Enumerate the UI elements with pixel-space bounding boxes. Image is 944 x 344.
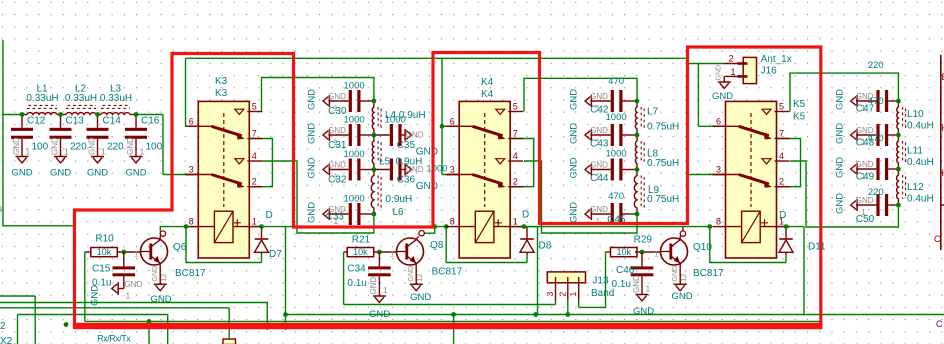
wire R10 to Q6 base [117, 251, 140, 253]
svg-text:GND: GND [125, 168, 146, 179]
svg-text:1000: 1000 [426, 164, 447, 175]
svg-text:1000: 1000 [606, 149, 627, 160]
wire rail [0, 295, 35, 297]
junction [784, 224, 789, 229]
svg-text:1: 1 [513, 217, 518, 227]
svg-text:3: 3 [716, 165, 721, 175]
wire input bus [2, 114, 22, 116]
wire riser [285, 227, 287, 330]
wire C16 to K3 pin3 [136, 114, 163, 116]
svg-text:C36: C36 [397, 175, 416, 186]
wire K5 pin5 to C47 node [790, 73, 898, 111]
svg-text:1: 1 [654, 250, 658, 259]
wire coil rail [186, 226, 198, 228]
junction [707, 224, 712, 229]
wire R21 to Q8 base [374, 251, 397, 253]
wire [687, 58, 689, 63]
junction [372, 167, 377, 172]
svg-text:GND: GND [590, 205, 608, 214]
svg-text:GND: GND [152, 266, 159, 282]
svg-text:GND: GND [410, 292, 431, 303]
junction [533, 312, 538, 317]
junction [444, 224, 449, 229]
svg-text:1000: 1000 [344, 149, 365, 160]
relay K3 [185, 76, 262, 258]
svg-text:C49: C49 [856, 172, 875, 183]
junction [184, 224, 189, 229]
svg-text:0.1u: 0.1u [612, 279, 631, 290]
pin [96, 114, 101, 116]
junction [20, 112, 25, 117]
wire [785, 254, 787, 263]
svg-text:Q6: Q6 [173, 242, 187, 253]
capacitor C44 [569, 149, 637, 185]
wire riser to rail [803, 227, 805, 315]
svg-text:C14: C14 [103, 116, 122, 127]
wire R29 to J13 pin1 [579, 252, 606, 307]
resistor R10 [91, 233, 118, 257]
svg-text:2: 2 [513, 177, 518, 187]
svg-text:GND: GND [406, 131, 424, 140]
svg-text:1: 1 [64, 147, 69, 157]
ground below C16 [125, 137, 146, 179]
svg-text:7: 7 [252, 129, 257, 139]
svg-text:10k: 10k [616, 247, 631, 257]
svg-text:BC817: BC817 [432, 267, 463, 278]
transistor Q10 [661, 238, 725, 291]
junction [896, 99, 901, 104]
wire K3 pin4 to C33 node [262, 161, 374, 233]
svg-text:C34: C34 [347, 264, 366, 275]
svg-text:3: 3 [189, 165, 194, 175]
svg-text:GND: GND [87, 168, 108, 179]
wire rail J13-3 to R21 [344, 304, 556, 306]
svg-text:GND: GND [834, 89, 845, 110]
svg-text:L4 0.9uH: L4 0.9uH [385, 110, 426, 121]
svg-text:0.75uH: 0.75uH [647, 122, 679, 133]
ground below C46 [632, 275, 654, 317]
diode D8 [520, 210, 552, 255]
wire riser [453, 315, 455, 344]
capacitor C43 [569, 112, 637, 150]
wire K4 pin7-pin2 link [511, 139, 534, 187]
connector pin bottom [223, 339, 236, 344]
svg-text:GND: GND [126, 137, 135, 155]
svg-text:GND: GND [569, 157, 580, 178]
ground below C12 [11, 137, 32, 179]
wire K4 pin6 tap [442, 125, 459, 127]
svg-text:8: 8 [716, 217, 721, 227]
connector at right edge [934, 55, 944, 329]
wire rail [0, 307, 229, 309]
svg-text:GND: GND [569, 89, 580, 110]
wire rail [18, 314, 168, 316]
capacitor C47 [834, 60, 898, 115]
svg-text:J13: J13 [592, 276, 609, 287]
svg-text:7: 7 [513, 129, 518, 139]
svg-text:GND: GND [307, 123, 318, 144]
svg-text:L12: L12 [907, 182, 924, 193]
transistor Q8 [397, 238, 463, 291]
svg-text:GND: GND [408, 266, 415, 282]
wire R29 to Q10 base [635, 251, 661, 253]
svg-text:0.9uH: 0.9uH [386, 194, 413, 205]
wire left edge vertical [2, 40, 4, 227]
wire K4 pin1 to K5 pin8 [511, 226, 712, 228]
capacitor C33 [307, 194, 374, 227]
svg-text:GND: GND [716, 65, 723, 81]
svg-text:L5 0.9uH: L5 0.9uH [379, 157, 422, 168]
junction [640, 250, 645, 255]
inductor L1 [26, 84, 58, 115]
junction [372, 212, 377, 217]
wire riser [34, 296, 36, 344]
svg-text:BC817: BC817 [693, 268, 724, 279]
svg-text:0.4uH: 0.4uH [907, 194, 934, 205]
svg-text:1: 1 [252, 217, 257, 227]
transistor Q6 [141, 238, 207, 291]
svg-text:220: 220 [107, 142, 124, 153]
svg-text:0.33uH: 0.33uH [65, 93, 97, 104]
svg-text:GND: GND [125, 280, 143, 289]
svg-text:GND: GND [12, 137, 21, 155]
svg-text:K5: K5 [793, 99, 806, 110]
wire K3 flyback return [186, 227, 262, 263]
resistor R29 [611, 235, 653, 258]
svg-text:K3: K3 [215, 76, 228, 87]
wire rail Rx [0, 303, 267, 331]
svg-text:2: 2 [779, 177, 784, 187]
svg-text:D11: D11 [808, 242, 826, 253]
wire K4 flyback return [446, 227, 527, 263]
svg-text:1: 1 [646, 284, 651, 294]
svg-text:C: C [936, 319, 943, 329]
svg-text:1: 1 [730, 67, 735, 77]
wire K5 pin3 [688, 174, 726, 176]
svg-text:D: D [522, 210, 529, 221]
svg-text:1: 1 [26, 147, 31, 157]
svg-text:GND: GND [150, 294, 171, 305]
svg-text:C35: C35 [397, 140, 416, 151]
svg-text:220: 220 [868, 187, 884, 198]
inductor L9 [634, 170, 679, 215]
wire K5 pin7-pin2 link [777, 139, 801, 187]
svg-text:D8: D8 [539, 241, 552, 252]
inductor L4 [372, 101, 425, 135]
svg-text:1: 1 [140, 147, 145, 157]
wire J13 pin1 [578, 301, 580, 308]
svg-text:100: 100 [32, 142, 49, 153]
svg-text:C15: C15 [92, 264, 111, 275]
connector J13 [545, 272, 614, 301]
svg-text:0.1u: 0.1u [347, 278, 366, 289]
capacitor C30 [307, 81, 374, 118]
junction [432, 224, 437, 229]
pin [130, 114, 136, 116]
svg-text:Q10: Q10 [693, 242, 712, 253]
capacitor C12 [11, 115, 49, 157]
svg-text:GND: GND [11, 168, 32, 179]
svg-text:D: D [266, 210, 273, 221]
svg-text:8: 8 [450, 217, 455, 227]
svg-text:C46: C46 [616, 265, 635, 276]
wire to J16 pin2 [688, 63, 725, 65]
svg-text:10k: 10k [97, 247, 112, 257]
wire riser [167, 315, 169, 344]
ground below C14 [87, 137, 108, 179]
wire [261, 254, 263, 263]
svg-text:0.4uH: 0.4uH [907, 157, 934, 168]
svg-text:Q8: Q8 [430, 240, 444, 251]
wire K5 pin1 [777, 226, 804, 228]
svg-text:GND: GND [712, 91, 733, 102]
junction [635, 167, 640, 172]
wire collector hook Q8 [416, 236, 418, 239]
inductor L12 [897, 169, 934, 205]
wire rail [85, 320, 821, 322]
junction [259, 224, 264, 229]
junction [121, 250, 126, 255]
wire R29 input [606, 251, 611, 253]
svg-text:0.75uH: 0.75uH [647, 158, 679, 169]
junction [440, 124, 445, 129]
svg-text:GND: GND [328, 126, 346, 135]
svg-text:1: 1 [568, 292, 578, 297]
svg-text:7: 7 [779, 129, 784, 139]
junction [635, 133, 640, 138]
svg-text:Ant_1x: Ant_1x [761, 54, 792, 65]
wire J13 pin3 [555, 301, 557, 305]
junction [64, 322, 69, 327]
svg-text:L10: L10 [907, 109, 924, 120]
svg-text:GND: GND [50, 168, 71, 179]
capacitor C14 [87, 115, 125, 157]
svg-text:1000: 1000 [344, 115, 365, 126]
pin [22, 114, 27, 116]
wire K3 pin6 bus [186, 57, 688, 59]
svg-text:GND: GND [569, 123, 580, 144]
svg-text:GND: GND [87, 137, 96, 155]
svg-text:0.33uH: 0.33uH [26, 93, 58, 104]
capacitor C42 [569, 76, 637, 116]
svg-text:5: 5 [513, 102, 518, 112]
wire K4 pin4 to C45 node [524, 161, 637, 233]
svg-text:1: 1 [134, 250, 138, 259]
svg-text:0.33uH: 0.33uH [100, 93, 132, 104]
svg-text:2: 2 [252, 177, 257, 187]
junction [565, 312, 570, 317]
svg-text:2: 2 [557, 292, 567, 297]
svg-text:L7: L7 [647, 107, 659, 118]
svg-text:X2: X2 [0, 336, 13, 344]
svg-text:R10: R10 [95, 233, 114, 244]
highlight outline [75, 47, 821, 326]
svg-text:10k: 10k [353, 247, 368, 257]
wire [526, 254, 528, 263]
junction [896, 167, 901, 172]
resistor R21 [347, 234, 374, 257]
capacitor C13 [50, 115, 88, 157]
svg-text:2: 2 [728, 54, 733, 64]
svg-text:BC817: BC817 [175, 268, 206, 279]
capacitor C16 [125, 115, 163, 157]
wire [524, 226, 538, 228]
inductor L2 [65, 84, 97, 115]
wire riser R21 [343, 252, 345, 305]
capacitor C15 [92, 252, 135, 289]
svg-text:K3: K3 [215, 88, 228, 99]
capacitor C49 [834, 133, 898, 183]
wire R10 input [85, 251, 91, 253]
diode D7 [255, 210, 283, 260]
svg-text:GND: GND [307, 89, 318, 110]
capacitor C36 [374, 159, 438, 193]
svg-text:6: 6 [716, 116, 721, 126]
svg-text:GND: GND [369, 277, 378, 295]
wire K4 pin5 to C42 node [524, 78, 637, 111]
svg-text:12: 12 [681, 274, 688, 282]
inductor L10 [897, 101, 934, 135]
svg-text:GND: GND [632, 275, 641, 293]
wire riser [148, 321, 150, 344]
ground below C13 [50, 137, 71, 179]
capacitor C34 [347, 252, 390, 289]
svg-text:6: 6 [189, 116, 194, 126]
svg-text:GND: GND [307, 202, 318, 223]
capacitor C32 [307, 149, 374, 186]
svg-text:1: 1 [383, 285, 388, 295]
svg-text:C33: C33 [326, 212, 345, 223]
capacitor C35 [374, 115, 438, 158]
svg-text:GND: GND [633, 306, 654, 317]
wire Q6 collector [160, 227, 186, 232]
svg-text:100: 100 [146, 142, 163, 153]
ground at J16 pin1 [712, 65, 733, 102]
junction [635, 99, 640, 104]
highlight bottom bar [73, 323, 823, 330]
connector J16 [724, 54, 791, 84]
wire K5 flyback return [710, 227, 786, 263]
inductor L6 [371, 170, 412, 219]
capacitor C48 [834, 96, 898, 149]
wire K3 pin7-pin2 link [249, 139, 272, 187]
junction [522, 224, 527, 229]
capacitor C31 [307, 115, 374, 152]
svg-text:GND: GND [328, 161, 346, 170]
svg-text:Band: Band [591, 288, 614, 299]
svg-text:K4: K4 [481, 89, 494, 100]
junction [58, 112, 63, 117]
svg-text:4: 4 [252, 151, 257, 161]
svg-text:0.4uH: 0.4uH [907, 121, 934, 132]
svg-text:C50: C50 [856, 214, 875, 225]
junction [372, 99, 377, 104]
wire riser [17, 315, 19, 344]
svg-text:1000: 1000 [344, 81, 365, 92]
relay K5 [713, 99, 806, 258]
svg-text:GND: GND [856, 160, 874, 169]
svg-text:Rx/Rx/Tx: Rx/Rx/Tx [97, 334, 131, 344]
pin [57, 114, 66, 116]
svg-text:220: 220 [70, 142, 87, 153]
junction [95, 112, 100, 117]
svg-text:GND: GND [328, 92, 346, 101]
wire riser K4 pin1 to rail [537, 227, 539, 315]
svg-text:GND: GND [672, 266, 679, 282]
wire K5 pin4 to C50 node [790, 161, 898, 227]
diode D11 [779, 210, 826, 255]
svg-text:R29: R29 [634, 235, 653, 246]
junction [451, 312, 456, 317]
wire riser to K3 pin6 [185, 58, 187, 126]
svg-text:8: 8 [189, 217, 194, 227]
svg-text:C32: C32 [328, 175, 347, 186]
svg-text:GND: GND [590, 126, 608, 135]
junction [896, 203, 901, 208]
junction [283, 312, 288, 317]
svg-text:1000: 1000 [344, 194, 365, 205]
svg-text:GND: GND [50, 137, 59, 155]
inductor L7 [635, 101, 679, 135]
wire riser R10 input [84, 252, 86, 321]
svg-text:C12: C12 [27, 116, 46, 127]
svg-text:470: 470 [608, 76, 624, 87]
svg-text:C13: C13 [66, 116, 85, 127]
svg-text:3: 3 [450, 165, 455, 175]
junction [134, 112, 139, 117]
svg-text:470: 470 [868, 96, 884, 107]
junction [147, 319, 152, 324]
svg-text:K4: K4 [481, 77, 494, 88]
junction [635, 212, 640, 217]
svg-text:5: 5 [252, 102, 257, 112]
wire rail supply [285, 314, 944, 316]
svg-text:R21: R21 [352, 234, 371, 245]
svg-text:6: 6 [450, 116, 455, 126]
svg-text:i: i [0, 204, 2, 214]
wire K3 pin5 to C30 node [262, 78, 374, 112]
svg-text:GND: GND [834, 157, 845, 178]
svg-text:K5: K5 [793, 112, 806, 123]
svg-text:GND: GND [590, 92, 608, 101]
inductor L3 [100, 84, 132, 115]
svg-text:12: 12 [417, 274, 424, 282]
svg-text:GND: GND [671, 291, 692, 302]
svg-text:2: 2 [0, 321, 6, 332]
wire collector hook Q6 [159, 236, 161, 240]
inductor L11 [897, 135, 934, 169]
svg-text:GND: GND [834, 123, 845, 144]
inductor L5 [372, 135, 422, 170]
capacitor C45 [569, 191, 637, 226]
svg-text:GND: GND [307, 157, 318, 178]
wire collector hook Q10 [679, 236, 681, 240]
capacitor C46 [612, 252, 654, 290]
wire Q8 collector [425, 227, 435, 234]
wire riser to K4 pin3 [441, 58, 443, 174]
svg-text:1000: 1000 [606, 112, 627, 123]
svg-text:220: 220 [868, 60, 884, 71]
svg-text:L6: L6 [393, 207, 405, 218]
junction [377, 250, 382, 255]
wire K3 pin1 to K4 pin8 [249, 226, 446, 228]
svg-text:0 75uH: 0 75uH [647, 194, 679, 205]
svg-text:4: 4 [513, 151, 518, 161]
svg-text:GND: GND [569, 202, 580, 223]
svg-text:D7: D7 [269, 249, 282, 260]
inductor L8 [635, 135, 679, 170]
svg-text:470: 470 [868, 133, 884, 144]
